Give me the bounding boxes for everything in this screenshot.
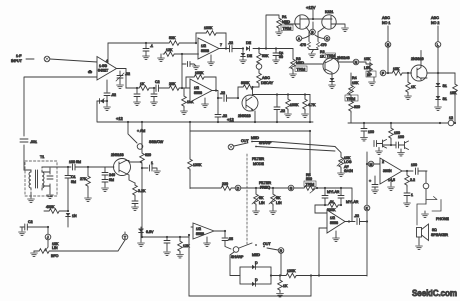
svg-text:3.2K: 3.2K [138, 189, 146, 193]
svg-text:LIN: LIN [52, 246, 58, 250]
svg-text:S1: S1 [443, 84, 447, 88]
svg-text:2N5023: 2N5023 [238, 114, 251, 118]
svg-text:DE: DE [247, 54, 253, 58]
svg-text:6.8V: 6.8V [146, 230, 154, 234]
svg-text:1N: 1N [72, 214, 77, 218]
svg-text:500: 500 [306, 177, 312, 181]
svg-text:L: L [437, 43, 439, 47]
svg-text:R4: R4 [352, 76, 357, 80]
svg-text:AGC: AGC [431, 16, 439, 20]
svg-text:OUT: OUT [241, 139, 249, 143]
svg-text:LOG: LOG [344, 160, 352, 164]
svg-text:SPEAKER: SPEAKER [431, 233, 448, 237]
svg-text:7: 7 [220, 43, 222, 47]
svg-text:NO 1: NO 1 [382, 21, 390, 25]
svg-text:TRIM: TRIM [283, 27, 292, 31]
svg-text:DECAY: DECAY [261, 81, 274, 85]
svg-text:2N3819: 2N3819 [411, 57, 424, 61]
svg-text:SHARP: SHARP [231, 255, 244, 259]
svg-text:INPUT: INPUT [11, 59, 23, 63]
svg-text:FILTER: FILTER [259, 181, 272, 185]
svg-text:1/2: 1/2 [194, 86, 199, 90]
svg-text:100: 100 [368, 130, 374, 134]
svg-text:8Ω: 8Ω [432, 228, 437, 232]
svg-text:53K: 53K [262, 54, 269, 58]
svg-text:AGC: AGC [262, 76, 270, 80]
svg-text:1: 1 [151, 161, 153, 165]
svg-text:27K: 27K [80, 177, 87, 181]
svg-text:53K: 53K [169, 36, 176, 40]
svg-text:2N5246: 2N5246 [337, 56, 350, 60]
svg-text:R2: R2 [320, 50, 325, 54]
svg-text:2N5163: 2N5163 [111, 153, 124, 157]
svg-text:NO 2: NO 2 [431, 21, 439, 25]
svg-text:1K: 1K [411, 85, 416, 89]
svg-text:D: D [255, 261, 258, 265]
svg-text:.22: .22 [222, 114, 227, 118]
svg-text:620: 620 [145, 153, 151, 157]
svg-text:C2: C2 [155, 80, 160, 84]
svg-text:LIN: LIN [276, 201, 282, 205]
svg-text:+12V: +12V [306, 5, 316, 10]
svg-text:240: 240 [109, 173, 115, 177]
svg-text:5556: 5556 [330, 221, 338, 225]
svg-text:+: + [369, 179, 371, 183]
svg-text:C2: C2 [28, 220, 33, 224]
svg-text:.22: .22 [228, 41, 233, 45]
svg-text:130K: 130K [193, 163, 202, 167]
svg-text:5558: 5558 [196, 232, 204, 236]
svg-text:1: 1 [411, 193, 413, 197]
svg-text:1/2: 1/2 [196, 227, 201, 231]
svg-text:.22: .22 [354, 214, 359, 218]
svg-text:db: db [88, 70, 92, 74]
svg-text:N: N [355, 61, 358, 65]
svg-text:2.2: 2.2 [410, 178, 415, 182]
svg-text:100: 100 [398, 135, 404, 139]
svg-text:J: J [47, 236, 49, 240]
svg-text:MED: MED [282, 20, 290, 24]
svg-text:800K: 800K [241, 81, 250, 85]
svg-text:TRIM: TRIM [297, 68, 306, 72]
svg-text:50: 50 [279, 55, 283, 59]
svg-text:MED: MED [251, 136, 259, 140]
svg-text:10K: 10K [450, 91, 457, 95]
svg-text:100K: 100K [195, 71, 204, 75]
svg-text:SeekIC.com: SeekIC.com [412, 288, 457, 298]
svg-text:C1: C1 [71, 175, 76, 179]
svg-text:+12: +12 [116, 116, 124, 121]
svg-text:130K: 130K [287, 269, 296, 273]
svg-text:5402T: 5402T [98, 69, 109, 73]
svg-text:400K: 400K [46, 205, 55, 209]
svg-text:.22: .22 [280, 109, 285, 113]
svg-text:.001: .001 [30, 140, 37, 144]
svg-text:M: M [370, 163, 373, 167]
svg-text:100 5M: 100 5M [69, 160, 81, 164]
svg-text:SSB/CW: SSB/CW [149, 140, 164, 144]
svg-text:GAIN: GAIN [344, 169, 353, 173]
svg-text:1K: 1K [283, 284, 288, 288]
svg-text:+ AM: + AM [137, 129, 145, 133]
svg-text:1K: 1K [140, 82, 145, 86]
svg-text:R1: R1 [282, 15, 287, 19]
svg-text:10K: 10K [364, 57, 371, 61]
svg-text:PHONE: PHONE [436, 217, 449, 221]
svg-text:5M: 5M [109, 178, 114, 182]
svg-text:470: 470 [300, 43, 306, 47]
svg-text:FREQ: FREQ [260, 186, 270, 190]
svg-text:T1: T1 [40, 155, 44, 159]
svg-text:.1: .1 [150, 44, 153, 48]
svg-text:K421: K421 [325, 10, 333, 14]
svg-text:FILTER: FILTER [252, 157, 265, 161]
svg-text:2: 2 [382, 160, 384, 164]
svg-text:5M: 5M [71, 180, 76, 184]
svg-text:BFO: BFO [51, 254, 59, 258]
svg-text:OUT: OUT [263, 242, 271, 246]
svg-text:1/2: 1/2 [330, 216, 335, 220]
svg-text:10K: 10K [393, 67, 400, 71]
svg-text:5558: 5558 [201, 49, 209, 53]
svg-text:12: 12 [449, 116, 453, 120]
svg-text:BP: BP [367, 73, 372, 77]
svg-text:5K: 5K [259, 196, 264, 200]
svg-text:+12: +12 [227, 117, 235, 122]
svg-text:100K: 100K [290, 103, 299, 107]
svg-text:MED: MED [252, 253, 260, 257]
svg-text:14,5: 14,5 [388, 178, 395, 182]
svg-text:R: R [280, 249, 283, 253]
svg-text:12K: 12K [166, 48, 173, 52]
svg-text:220: 220 [222, 182, 228, 186]
svg-text:.02: .02 [111, 93, 116, 97]
svg-text:.22: .22 [220, 91, 225, 95]
svg-text:1-F: 1-F [16, 54, 22, 58]
svg-text:380N: 380N [383, 169, 392, 173]
svg-text:G: G [290, 187, 293, 191]
svg-text:5556: 5556 [194, 91, 202, 95]
svg-text:820: 820 [354, 105, 360, 109]
svg-text:100: 100 [411, 163, 417, 167]
svg-text:1-5G: 1-5G [99, 64, 107, 68]
svg-text:MYLAR: MYLAR [346, 200, 359, 204]
svg-text:S1: S1 [443, 97, 447, 101]
svg-text:LIN: LIN [259, 201, 265, 205]
svg-text:5K: 5K [276, 196, 281, 200]
svg-text:470: 470 [321, 43, 327, 47]
svg-text:MODE: MODE [253, 162, 264, 166]
svg-text:D: D [255, 278, 258, 282]
svg-text:10K: 10K [352, 81, 359, 85]
svg-text:MYLAR: MYLAR [327, 190, 340, 194]
svg-text:1/2: 1/2 [201, 44, 206, 48]
svg-text:100K: 100K [204, 26, 213, 30]
svg-text:TRIM: TRIM [327, 54, 336, 58]
svg-text:20K: 20K [169, 82, 176, 86]
svg-text:D: D [237, 187, 240, 191]
svg-text:1K: 1K [320, 55, 325, 59]
svg-text:AGC: AGC [382, 16, 390, 20]
svg-text:.05: .05 [228, 237, 233, 241]
svg-text:4.7K: 4.7K [308, 103, 316, 107]
svg-text:C: C [326, 37, 329, 41]
svg-text:DE: DE [246, 41, 252, 45]
